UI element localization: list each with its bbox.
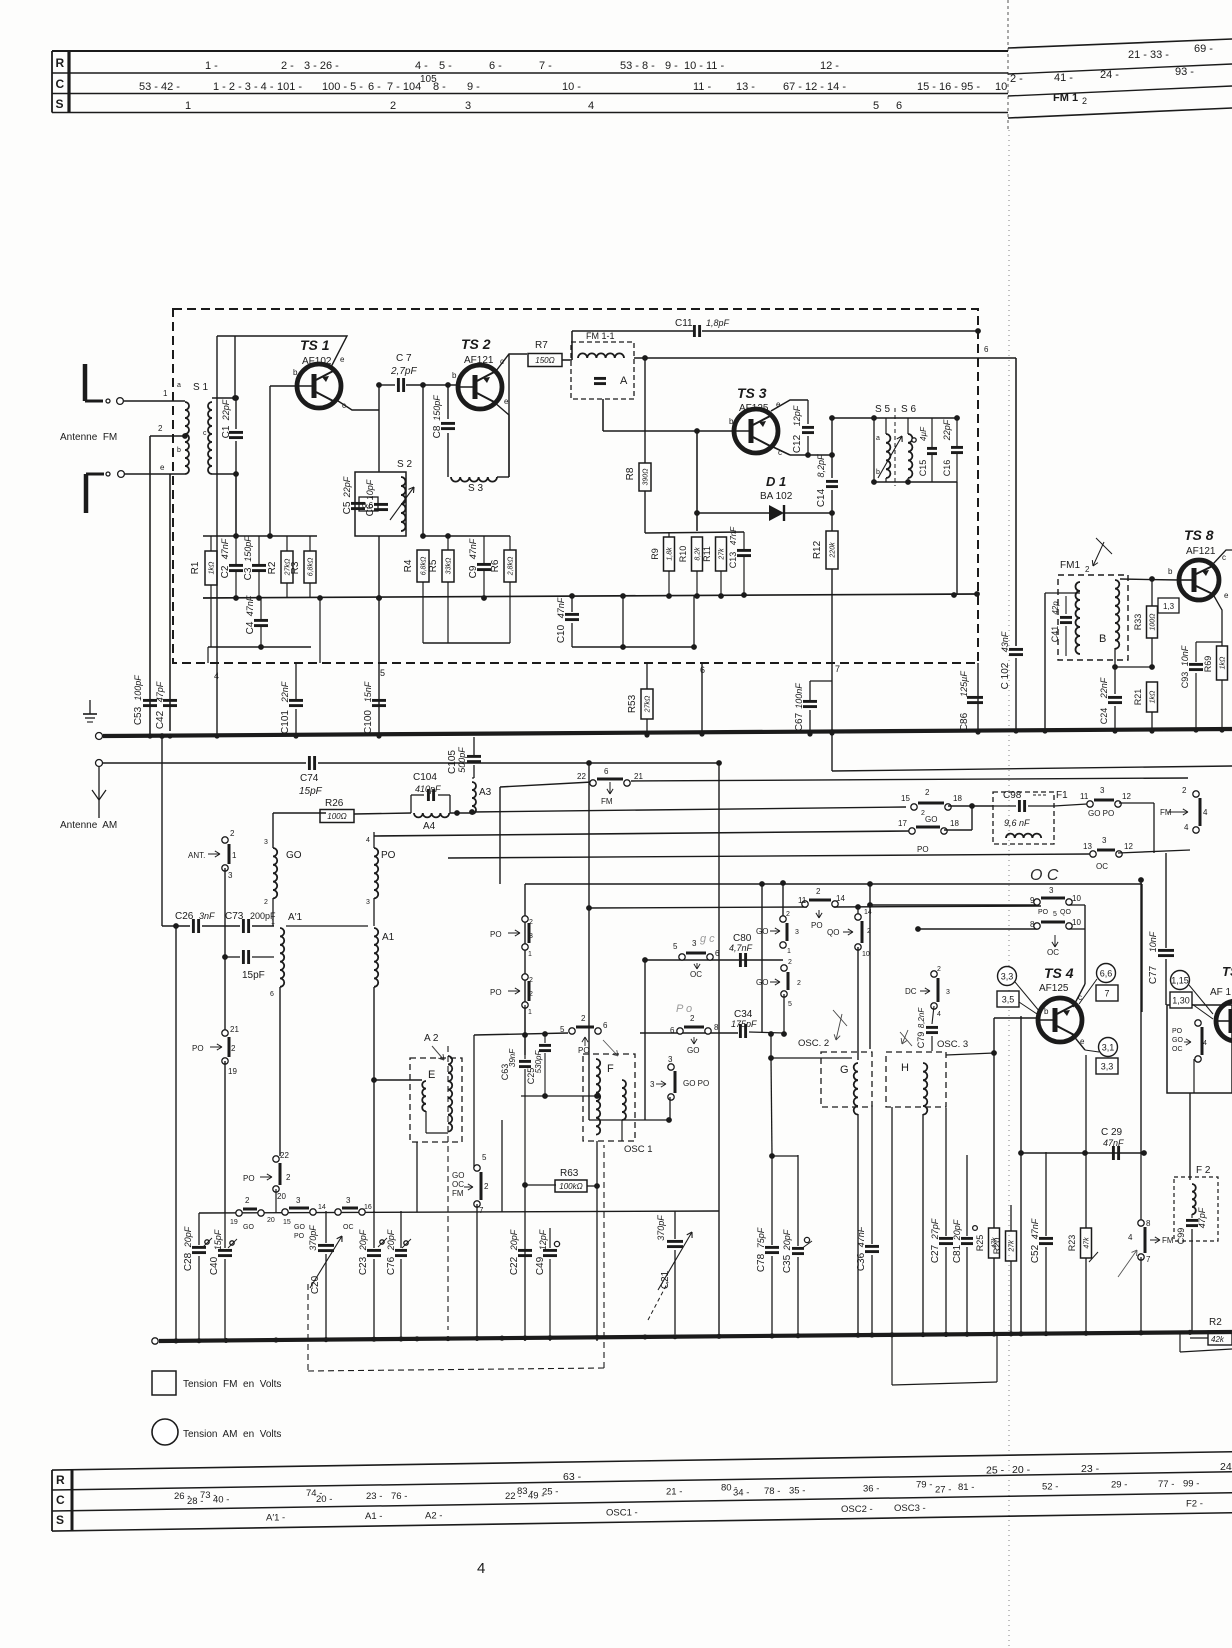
svg-text:2: 2 xyxy=(1085,565,1090,574)
capacitor C42 47pF xyxy=(163,699,177,702)
svg-text:500pF: 500pF xyxy=(457,747,467,773)
svg-text:3: 3 xyxy=(1049,886,1054,895)
wire TS3 emitter to C12 xyxy=(771,400,808,411)
svg-text:29 -: 29 - xyxy=(1111,1480,1127,1491)
svg-text:b: b xyxy=(1168,567,1173,576)
svg-text:C16: C16 xyxy=(942,460,952,477)
svg-text:R1: R1 xyxy=(190,561,201,574)
svg-text:1,30: 1,30 xyxy=(1172,995,1190,1005)
svg-text:63 -: 63 - xyxy=(563,1471,582,1483)
svg-text:C77: C77 xyxy=(1148,965,1159,984)
wire x176 down xyxy=(175,926,177,1341)
vertical wire 870 xyxy=(869,884,871,1049)
svg-text:370pF: 370pF xyxy=(656,1215,666,1241)
wire S3 right up to R7 row xyxy=(497,476,509,478)
wire C26 C73 row xyxy=(162,925,190,927)
svg-text:C35: C35 xyxy=(782,1254,793,1273)
svg-text:2: 2 xyxy=(788,959,792,966)
svg-text:6: 6 xyxy=(984,345,989,354)
svg-text:2: 2 xyxy=(690,1014,695,1023)
svg-text:12pF: 12pF xyxy=(538,1229,548,1250)
svg-text:7: 7 xyxy=(479,1206,484,1215)
switch 6-2-8 GO xyxy=(684,1026,704,1029)
svg-text:QO: QO xyxy=(827,928,839,937)
svg-text:S 6: S 6 xyxy=(901,404,916,415)
svg-text:3: 3 xyxy=(465,100,471,112)
wire TS1 top to corner xyxy=(235,336,347,369)
svg-text:R26: R26 xyxy=(325,798,344,809)
voltage callout circle 3,1 xyxy=(1099,1038,1118,1057)
svg-text:9,6 nF: 9,6 nF xyxy=(1004,818,1030,828)
svg-text:e: e xyxy=(340,355,345,364)
wire ANT down xyxy=(224,868,226,1032)
svg-text:R11: R11 xyxy=(702,546,712,562)
svg-text:G: G xyxy=(840,1064,849,1076)
svg-text:1: 1 xyxy=(185,100,191,112)
svg-text:1: 1 xyxy=(787,948,791,955)
svg-text:C26: C26 xyxy=(175,911,194,922)
wire C42 vertical xyxy=(169,474,171,731)
capacitor C10 47nF xyxy=(571,596,573,612)
vertical 783 from box top xyxy=(782,883,784,918)
wire L3 right xyxy=(1118,850,1190,853)
svg-text:FM 1: FM 1 xyxy=(1053,92,1078,104)
svg-text:4: 4 xyxy=(588,100,594,112)
svg-text:b: b xyxy=(729,417,734,426)
svg-text:c: c xyxy=(203,430,207,437)
svg-text:OC: OC xyxy=(690,970,702,979)
svg-text:1: 1 xyxy=(528,1009,532,1016)
coil FM1-2 left xyxy=(1076,582,1081,654)
svg-text:TS 4: TS 4 xyxy=(1044,965,1074,981)
svg-text:23 -: 23 - xyxy=(1081,1463,1100,1475)
svg-text:e: e xyxy=(1224,591,1229,600)
TS4 column to C29 xyxy=(1085,1055,1087,1152)
svg-text:100kΩ: 100kΩ xyxy=(559,1182,582,1191)
wire tap into F coil xyxy=(521,1095,597,1097)
svg-text:24 -: 24 - xyxy=(1100,69,1119,81)
svg-text:47nF: 47nF xyxy=(468,538,478,559)
svg-text:O C: O C xyxy=(1030,867,1059,884)
svg-text:A: A xyxy=(620,375,628,387)
switch 3-3 GO PO xyxy=(674,1071,677,1093)
svg-text:100 - 5 -: 100 - 5 - xyxy=(322,81,363,93)
svg-text:C40: C40 xyxy=(209,1256,220,1275)
cluster2 bottom rail xyxy=(423,642,510,644)
AM wire after C74 xyxy=(318,762,719,764)
svg-text:22pF: 22pF xyxy=(221,399,231,421)
svg-text:PO: PO xyxy=(294,1233,305,1240)
svg-text:Tension AM en Volts: Tension AM en Volts xyxy=(183,1429,281,1440)
svg-text:FM1: FM1 xyxy=(1060,560,1080,571)
svg-text:4,7nF: 4,7nF xyxy=(729,943,753,953)
svg-text:B: B xyxy=(1099,633,1106,645)
svg-text:GO: GO xyxy=(286,850,302,861)
svg-text:27k: 27k xyxy=(1009,1240,1016,1253)
svg-text:52 -: 52 - xyxy=(1042,1482,1058,1493)
svg-text:C28: C28 xyxy=(183,1252,194,1271)
C78 column from OSC2 area xyxy=(771,1058,772,1155)
capacitor C78 75pF xyxy=(771,1155,773,1245)
switch 5-3-6 OC xyxy=(686,952,706,955)
voltage callout box 3,3 xyxy=(1096,1058,1118,1074)
svg-text:16: 16 xyxy=(364,1204,372,1211)
svg-text:b: b xyxy=(1044,1007,1049,1016)
svg-text:FM: FM xyxy=(452,1189,464,1198)
trimmer marks on padder capacitors xyxy=(205,1240,209,1244)
svg-text:2: 2 xyxy=(231,1044,236,1053)
svg-text:C99: C99 xyxy=(1176,1228,1186,1245)
wire switch down to row 1120 xyxy=(669,1097,671,1120)
wire to far right xyxy=(1119,802,1154,804)
svg-text:17: 17 xyxy=(898,819,907,828)
TS4 base wire xyxy=(994,1017,1040,1019)
svg-text:6: 6 xyxy=(270,991,274,998)
svg-text:93 -: 93 - xyxy=(1175,66,1194,78)
capacitor C36 47nF xyxy=(871,1105,873,1244)
svg-text:4µF: 4µF xyxy=(919,426,928,441)
svg-text:PO: PO xyxy=(490,988,502,997)
TS8 collector wire xyxy=(1213,550,1232,564)
svg-text:TS 1: TS 1 xyxy=(300,337,330,353)
variable capacitor C35 20pF xyxy=(797,1155,799,1246)
svg-text:b: b xyxy=(293,368,298,377)
svg-text:5: 5 xyxy=(873,100,879,112)
svg-text:1: 1 xyxy=(271,919,275,926)
resistor R63 100k xyxy=(525,1184,556,1186)
solid box with PO GO OC switch xyxy=(1167,1005,1232,1093)
capacitor C28 20pF xyxy=(198,1213,200,1245)
coil S6 xyxy=(908,434,912,478)
svg-text:3,3: 3,3 xyxy=(1001,971,1014,981)
svg-text:C23: C23 xyxy=(358,1256,369,1275)
switch 15-2-18 GO xyxy=(918,802,944,805)
svg-text:99 -: 99 - xyxy=(1183,1479,1199,1490)
svg-text:9 -: 9 - xyxy=(467,81,480,93)
long rail inside box xyxy=(203,594,977,598)
svg-text:2,7pF: 2,7pF xyxy=(390,366,417,377)
junction A3 xyxy=(450,812,472,814)
svg-text:15: 15 xyxy=(901,794,910,803)
svg-text:C24: C24 xyxy=(1099,708,1109,725)
svg-text:15 - 16 - 95 -: 15 - 16 - 95 - xyxy=(917,81,980,93)
svg-text:A3: A3 xyxy=(479,787,492,798)
vertical wire 1141 xyxy=(1140,880,1142,1153)
svg-text:47pF: 47pF xyxy=(1197,1207,1207,1228)
wire FM1-2 left column to bus xyxy=(1044,593,1046,731)
svg-text:53 - 8 -: 53 - 8 - xyxy=(620,60,655,72)
svg-text:6: 6 xyxy=(715,949,720,958)
wire S1 tap down to C53 xyxy=(149,436,151,736)
resistor R1 1k xyxy=(205,551,217,585)
vertical wire 589 xyxy=(588,763,590,1120)
switch DC vertical xyxy=(937,978,940,1002)
wire R7 to top rail xyxy=(562,359,572,361)
svg-text:OSC3 -: OSC3 - xyxy=(894,1503,926,1514)
svg-text:22nF: 22nF xyxy=(1099,677,1109,699)
coil FM1-2 right xyxy=(1115,580,1119,649)
svg-text:C27: C27 xyxy=(930,1244,941,1263)
svg-text:3nF: 3nF xyxy=(199,911,215,921)
svg-text:OC: OC xyxy=(1096,862,1108,871)
wire cluster down to box bottom xyxy=(319,598,321,663)
svg-text:C14: C14 xyxy=(816,488,827,507)
svg-text:53 - 42 -: 53 - 42 - xyxy=(139,81,180,93)
svg-text:C: C xyxy=(56,1493,65,1507)
resistor R69 1k xyxy=(1217,646,1228,680)
svg-text:22: 22 xyxy=(280,1151,289,1160)
svg-text:47nF: 47nF xyxy=(556,597,566,618)
svg-text:F 2: F 2 xyxy=(1196,1165,1211,1176)
svg-text:8: 8 xyxy=(1030,920,1035,929)
svg-text:20: 20 xyxy=(277,1192,286,1201)
svg-text:C104: C104 xyxy=(413,772,437,783)
svg-text:77 -: 77 - xyxy=(1158,1479,1174,1490)
trimmer block A4 with C104 xyxy=(410,795,412,813)
svg-text:C98: C98 xyxy=(1003,790,1022,801)
transformer S1 primary coil xyxy=(185,402,189,474)
cluster bottom rail xyxy=(208,646,311,648)
svg-text:3: 3 xyxy=(668,1055,673,1064)
svg-text:5: 5 xyxy=(560,1025,565,1034)
svg-text:4: 4 xyxy=(1203,808,1208,817)
svg-text:C 7: C 7 xyxy=(396,353,412,364)
line L3 OC xyxy=(448,854,1090,858)
svg-text:43nF: 43nF xyxy=(1000,631,1010,652)
top ruler frame right part xyxy=(1008,39,1232,48)
svg-text:2: 2 xyxy=(158,424,163,433)
svg-text:20 -: 20 - xyxy=(316,1494,332,1505)
svg-text:R2: R2 xyxy=(267,561,278,574)
svg-text:R63: R63 xyxy=(560,1168,579,1179)
resistor R6 2,8k xyxy=(504,550,516,582)
vertical wire at 832 xyxy=(831,663,833,732)
capacitor C52 47nF xyxy=(1045,1152,1047,1236)
svg-text:27pF: 27pF xyxy=(930,1218,940,1240)
svg-text:A′1 -: A′1 - xyxy=(266,1513,285,1524)
svg-text:100nF: 100nF xyxy=(794,683,804,709)
svg-text:S 5: S 5 xyxy=(875,404,890,415)
svg-text:21: 21 xyxy=(230,1025,239,1034)
wire antenna lower to S1 bottom xyxy=(124,473,185,475)
svg-text:21: 21 xyxy=(634,772,643,781)
svg-text:7 -: 7 - xyxy=(539,60,552,72)
voltage callout box 1,30 xyxy=(1170,992,1192,1008)
svg-text:2: 2 xyxy=(937,966,941,973)
svg-text:R33: R33 xyxy=(1133,614,1143,631)
resistor R3 68k xyxy=(304,551,316,583)
svg-text:C9: C9 xyxy=(468,565,479,578)
svg-text:3: 3 xyxy=(346,1196,351,1205)
svg-text:Antenne AM: Antenne AM xyxy=(60,820,117,831)
wire A1 down xyxy=(373,987,375,1213)
svg-text:C101: C101 xyxy=(280,710,291,734)
svg-text:19: 19 xyxy=(230,1219,238,1226)
resistor R25 47k xyxy=(989,1228,1000,1258)
svg-text:10: 10 xyxy=(1072,894,1081,903)
oscillator coil H dashed box xyxy=(886,1052,946,1107)
svg-text:150pF: 150pF xyxy=(243,536,253,562)
capacitor C74 15pF xyxy=(308,756,311,770)
svg-text:R5: R5 xyxy=(428,559,439,572)
resistor R21 1k xyxy=(1147,682,1158,712)
variable capacitor C20 370pF xyxy=(325,1211,327,1243)
svg-text:1: 1 xyxy=(163,389,168,398)
svg-text:8,2nF: 8,2nF xyxy=(917,1007,926,1029)
svg-text:3,3: 3,3 xyxy=(1101,1061,1114,1071)
switch QO vertical xyxy=(857,907,859,917)
capacitor C100 15nF xyxy=(378,698,380,700)
svg-text:C86: C86 xyxy=(959,712,970,731)
oscillator coil G dashed box xyxy=(821,1052,872,1107)
svg-text:C1: C1 xyxy=(221,425,232,438)
svg-text:C8: C8 xyxy=(432,425,443,438)
svg-text:78 -: 78 - xyxy=(764,1486,780,1497)
svg-text:PO: PO xyxy=(811,921,823,930)
svg-text:GO PO: GO PO xyxy=(683,1079,709,1088)
wire tank bottom down to rail xyxy=(956,482,958,595)
wire C80 row xyxy=(645,959,783,961)
coil S5 xyxy=(886,434,890,478)
svg-text:A 2: A 2 xyxy=(424,1033,439,1044)
svg-text:C4: C4 xyxy=(245,621,256,634)
svg-text:F: F xyxy=(607,1063,614,1075)
svg-text:12: 12 xyxy=(1122,792,1131,801)
wire A'1 to A1 top xyxy=(286,925,368,927)
capacitor C53 100pF xyxy=(143,699,157,702)
switch PO lower left xyxy=(228,1037,231,1057)
wire to G box xyxy=(770,1034,772,1058)
TS2 emitter wire down xyxy=(494,402,509,477)
resistor R11 27k xyxy=(716,537,727,571)
svg-text:e: e xyxy=(160,463,165,472)
svg-text:3: 3 xyxy=(650,1080,655,1089)
svg-text:C53: C53 xyxy=(133,706,144,725)
svg-text:100Ω: 100Ω xyxy=(327,812,346,821)
resistor R2 27k xyxy=(281,551,293,583)
svg-text:R20: R20 xyxy=(992,1238,1002,1255)
voltage callout box 0,6 xyxy=(359,497,378,511)
svg-text:530pF: 530pF xyxy=(534,1050,543,1074)
svg-text:410pF: 410pF xyxy=(415,784,441,794)
svg-text:4: 4 xyxy=(1128,1233,1133,1242)
svg-text:150Ω: 150Ω xyxy=(535,356,554,365)
svg-text:5: 5 xyxy=(380,668,385,678)
svg-text:R7: R7 xyxy=(535,340,548,351)
svg-text:GO: GO xyxy=(243,1224,254,1231)
svg-text:100Ω: 100Ω xyxy=(1150,613,1157,631)
S1 center tap wire pin2 xyxy=(150,435,185,437)
wire after switch xyxy=(834,906,1041,907)
resistor R5 33k xyxy=(442,550,454,582)
capacitor C34 175pF xyxy=(739,1024,742,1038)
svg-text:2: 2 xyxy=(797,980,801,987)
svg-text:4: 4 xyxy=(1203,1040,1207,1047)
svg-text:3: 3 xyxy=(228,871,233,880)
svg-text:GO: GO xyxy=(1172,1037,1183,1044)
svg-text:11 -: 11 - xyxy=(693,81,711,93)
wire TS1 collector to C7 xyxy=(335,399,379,410)
svg-text:150pF: 150pF xyxy=(432,395,442,421)
svg-text:23 -: 23 - xyxy=(366,1491,382,1502)
svg-text:12: 12 xyxy=(1124,842,1133,851)
filter F1 C98 dashed box xyxy=(993,792,1054,844)
svg-text:R9: R9 xyxy=(650,548,660,560)
svg-text:C11: C11 xyxy=(675,318,693,329)
svg-text:3,1: 3,1 xyxy=(1102,1042,1115,1052)
svg-text:PO: PO xyxy=(1172,1028,1183,1035)
main AM ground bus xyxy=(152,1338,158,1344)
svg-text:R6: R6 xyxy=(490,559,501,572)
svg-text:15pF: 15pF xyxy=(213,1229,223,1250)
wire row 1035 to GO OC FM switch xyxy=(474,1033,568,1035)
svg-text:5: 5 xyxy=(1053,911,1057,918)
capacitor C6 10pF xyxy=(374,503,388,506)
vertical wire pin4 xyxy=(216,336,218,663)
AM wire to C74 xyxy=(102,762,306,764)
svg-text:1: 1 xyxy=(232,851,237,860)
svg-text:10nF: 10nF xyxy=(1148,931,1158,952)
svg-text:5: 5 xyxy=(673,942,678,951)
capacitor C26 3nF xyxy=(192,919,195,933)
svg-text:GO PO: GO PO xyxy=(1088,809,1114,818)
svg-text:R25: R25 xyxy=(975,1235,985,1252)
svg-text:1 -: 1 - xyxy=(205,60,218,72)
svg-text:2: 2 xyxy=(529,919,533,926)
capacitor C9 47nF xyxy=(477,563,491,566)
svg-text:R: R xyxy=(56,56,65,70)
svg-text:PO: PO xyxy=(1038,909,1049,916)
svg-text:2,8kΩ: 2,8kΩ xyxy=(508,556,515,576)
svg-text:14: 14 xyxy=(836,894,845,903)
capacitor C4 47nF xyxy=(254,619,268,622)
wire S2 bottom down xyxy=(378,536,380,598)
resistor R12 220k xyxy=(826,531,838,569)
svg-text:2: 2 xyxy=(1082,96,1087,106)
svg-text:10: 10 xyxy=(862,951,870,958)
cluster2 top rail xyxy=(423,535,510,537)
svg-text:7: 7 xyxy=(835,664,840,674)
voltage callout box 7 xyxy=(1096,985,1118,1001)
FM tuner section dashed box xyxy=(173,309,978,663)
svg-text:H: H xyxy=(901,1062,909,1074)
coil GO xyxy=(273,848,277,898)
svg-text:75pF: 75pF xyxy=(756,1227,766,1248)
transistor TS3 xyxy=(734,409,778,453)
svg-text:C2: C2 xyxy=(220,565,231,578)
svg-text:47pF: 47pF xyxy=(155,681,165,702)
capacitor C16 22pF xyxy=(951,446,963,449)
resistor R10 8,2k xyxy=(692,537,703,571)
capacitor C3 150pF xyxy=(252,564,266,567)
svg-text:6 -: 6 - xyxy=(368,81,381,93)
svg-text:b: b xyxy=(452,371,457,380)
capacitor C24 22nF xyxy=(1115,666,1152,668)
voltage callout box 3,5 xyxy=(997,991,1019,1007)
svg-text:47nF: 47nF xyxy=(1030,1218,1040,1239)
svg-text:R4: R4 xyxy=(403,559,414,572)
switch 11-3-12 GO PO xyxy=(1054,804,1087,806)
FM antenna upper bar xyxy=(83,364,88,401)
svg-text:10nF: 10nF xyxy=(1180,645,1190,666)
svg-text:C49: C49 xyxy=(535,1256,546,1275)
bottom ruler letter boxes xyxy=(51,1470,53,1531)
capacitor C98 xyxy=(1018,800,1021,812)
capacitor C86 125uF xyxy=(967,696,983,699)
svg-text:C13: C13 xyxy=(728,552,738,569)
tuned circuit S2 box xyxy=(355,472,406,536)
svg-text:8,2pF: 8,2pF xyxy=(816,454,826,478)
